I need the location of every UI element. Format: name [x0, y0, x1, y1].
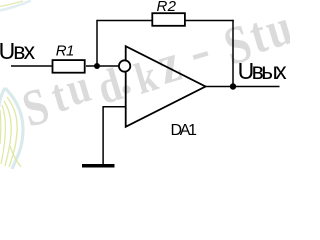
wire: top feedback, right segment — [186, 20, 234, 22]
wire: non-inverting input — [103, 106, 126, 108]
junction node: input — [94, 63, 100, 69]
svg-text:Uвх: Uвх — [0, 38, 36, 64]
op-amp DA1 triangle — [126, 46, 206, 127]
svg-text:R1: R1 — [56, 42, 75, 59]
resistor R1 — [53, 60, 85, 73]
wire: feedback right vertical — [232, 20, 234, 87]
wire: output — [206, 86, 280, 88]
resistor R2 — [152, 13, 185, 26]
ground — [82, 164, 115, 168]
svg-text:Uвых: Uвых — [238, 58, 288, 84]
wire: feedback left vertical — [96, 20, 98, 66]
wire: R1 to inverting input — [86, 65, 119, 67]
wire: top feedback, left segment — [97, 20, 152, 22]
svg-text:R2: R2 — [157, 0, 177, 15]
wire: to ground — [102, 106, 104, 165]
svg-text:DA1: DA1 — [171, 122, 198, 139]
inverting input circle — [119, 60, 130, 71]
junction node: output — [230, 83, 236, 89]
wire: input — [11, 65, 52, 67]
